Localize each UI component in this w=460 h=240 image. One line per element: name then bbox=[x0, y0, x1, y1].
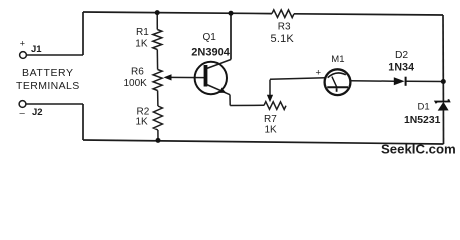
svg-text:–: – bbox=[20, 108, 26, 119]
svg-text:J2: J2 bbox=[32, 107, 43, 118]
svg-text:+: + bbox=[316, 68, 322, 79]
svg-text:D2: D2 bbox=[395, 50, 408, 61]
svg-text:D1: D1 bbox=[418, 101, 430, 112]
svg-text:R1: R1 bbox=[136, 27, 149, 38]
svg-text:2N3904: 2N3904 bbox=[191, 46, 230, 58]
svg-text:J1: J1 bbox=[31, 44, 42, 55]
svg-text:R6: R6 bbox=[131, 67, 144, 78]
svg-text:1K: 1K bbox=[135, 38, 148, 49]
svg-text:R3: R3 bbox=[278, 22, 291, 33]
svg-text:SeekIC.com: SeekIC.com bbox=[381, 141, 456, 156]
svg-text:+: + bbox=[20, 38, 25, 48]
svg-text:Q1: Q1 bbox=[203, 32, 217, 43]
svg-text:M1: M1 bbox=[331, 54, 344, 65]
svg-text:1N34: 1N34 bbox=[388, 62, 414, 74]
svg-text:5.1K: 5.1K bbox=[271, 33, 295, 45]
svg-text:1K: 1K bbox=[136, 117, 149, 128]
svg-text:1K: 1K bbox=[265, 124, 278, 135]
svg-text:BATTERY: BATTERY bbox=[22, 67, 74, 79]
svg-text:TERMINALS: TERMINALS bbox=[16, 80, 80, 92]
svg-text:1N5231: 1N5231 bbox=[404, 115, 441, 126]
svg-text:100K: 100K bbox=[124, 78, 148, 89]
